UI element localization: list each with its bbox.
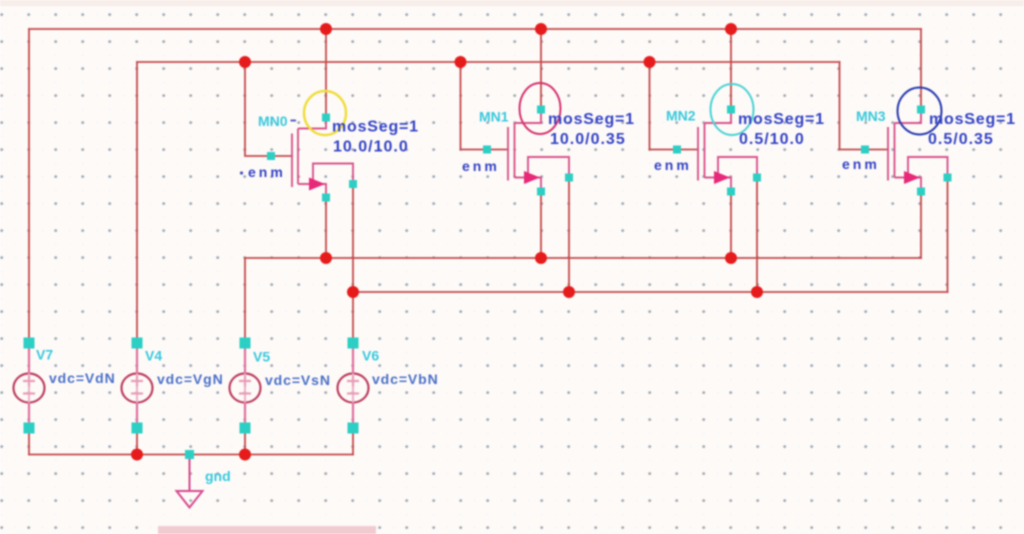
svg-text:enm: enm <box>248 164 286 180</box>
wire MN1 source drop <box>540 195 542 258</box>
svg-text:enm: enm <box>654 157 692 173</box>
svg-text:enm: enm <box>842 156 880 172</box>
transistor MN1 nmos <box>508 108 569 193</box>
transistor MN3 nmos <box>888 108 948 193</box>
decor top band <box>0 0 1024 6</box>
wire MN0 source drop <box>325 201 327 258</box>
svg-text:vdc=VsN: vdc=VsN <box>265 372 331 388</box>
svg-text:vdc=VgN: vdc=VgN <box>157 371 224 387</box>
wire MN3 source drop <box>920 195 922 258</box>
wire MN0 drain riser <box>325 29 327 114</box>
wire MN3 drain riser <box>920 29 922 106</box>
svg-text:MN3: MN3 <box>856 108 886 124</box>
voltage source V7 vdc <box>14 343 45 430</box>
wire MN2 drain riser <box>730 29 732 106</box>
svg-text:MN1: MN1 <box>479 109 509 125</box>
svg-text:0.5/0.35: 0.5/0.35 <box>928 131 994 148</box>
svg-text:0.5/10.0: 0.5/10.0 <box>739 131 805 148</box>
wire gate bus VgN <box>137 61 840 63</box>
svg-text:V6: V6 <box>362 348 379 364</box>
wire V5 bottom stub <box>244 430 246 455</box>
svg-text:V4: V4 <box>145 348 162 364</box>
wire V7 bottom stub <box>28 430 30 455</box>
transistor MN2 nmos <box>698 108 757 193</box>
wire source bus VsN <box>245 257 921 259</box>
wire V6 bottom stub <box>352 430 354 455</box>
svg-text:MN0: MN0 <box>258 113 288 129</box>
voltage source V4 vdc <box>122 343 153 430</box>
wire top bus VdN <box>29 28 921 30</box>
wire MN1 gate riser <box>461 62 509 150</box>
svg-text:mosSeg=1: mosSeg=1 <box>548 111 635 128</box>
decor bottom band <box>158 526 376 534</box>
highlight ellipse MN0 <box>304 91 346 135</box>
svg-text:V7: V7 <box>36 347 53 363</box>
dot before enm MN0 <box>240 171 243 174</box>
svg-text:vdc=VbN: vdc=VbN <box>372 371 439 387</box>
wire MN2 bulk drop <box>756 181 758 292</box>
wire MN1 drain riser <box>540 29 542 106</box>
wire V6 drop <box>352 187 354 343</box>
wire MN3 gate riser <box>840 62 889 150</box>
svg-text:mosSeg=1: mosSeg=1 <box>738 111 825 128</box>
svg-text:10.0/10.0: 10.0/10.0 <box>333 139 409 156</box>
wire V7 drop left <box>28 29 30 343</box>
wire V5 drop <box>244 258 246 343</box>
transistor MN0 nmos <box>292 116 353 199</box>
svg-text:10.0/0.35: 10.0/0.35 <box>550 131 626 148</box>
wire V4 drop <box>136 62 138 343</box>
svg-text:V5: V5 <box>253 349 270 365</box>
ground symbol gnd <box>177 455 203 508</box>
wire V4 bottom stub <box>136 430 138 455</box>
arrow MN1 source <box>524 171 540 184</box>
wire MN1 bulk drop <box>568 181 570 292</box>
arrow MN3 source <box>904 171 920 184</box>
svg-text:mosSeg=1: mosSeg=1 <box>332 119 419 136</box>
voltage source V5 vdc <box>230 343 261 430</box>
wire MN3 bulk drop <box>947 181 949 292</box>
svg-text:enm: enm <box>462 158 500 174</box>
svg-text:gnd: gnd <box>205 468 231 484</box>
wire bottom bus to gnd <box>29 454 353 456</box>
pins cyan squares <box>24 106 952 460</box>
wire MN2 source drop <box>730 195 732 258</box>
wire MN2 gate riser <box>650 62 699 150</box>
wire bulk bus VbN <box>353 291 948 293</box>
voltage source V6 vdc <box>338 343 369 430</box>
svg-text:vdc=VdN: vdc=VdN <box>49 370 116 386</box>
highlight ellipse MN3 <box>898 88 942 135</box>
arrow MN0 source <box>309 178 325 191</box>
highlight ellipse MN2 <box>711 84 754 135</box>
tick after MN0 label <box>291 120 297 122</box>
wire MN0 gate riser <box>245 62 292 156</box>
arrow MN2 source <box>714 171 730 184</box>
highlight ellipse MN1 <box>520 83 561 134</box>
svg-text:MN2: MN2 <box>666 108 696 124</box>
svg-text:mosSeg=1: mosSeg=1 <box>929 111 1016 128</box>
